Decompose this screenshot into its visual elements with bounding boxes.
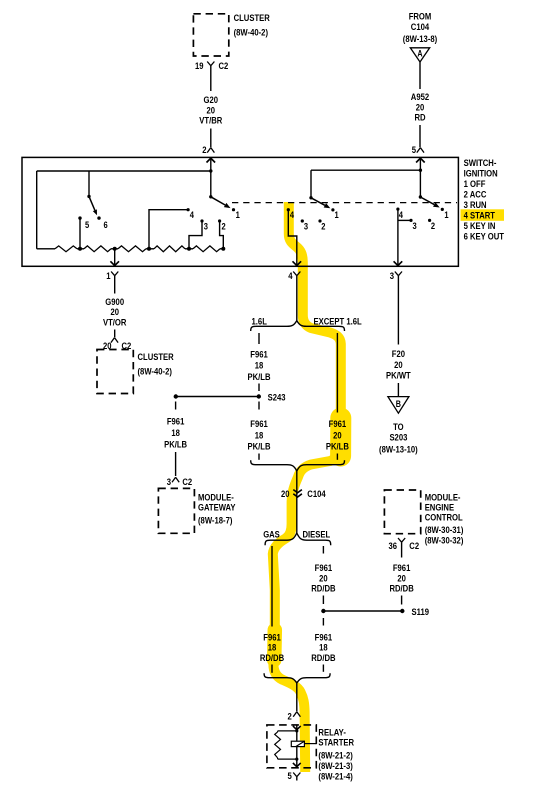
svg-text:(8W-13-8): (8W-13-8): [403, 34, 437, 45]
svg-text:F961: F961: [329, 419, 347, 430]
svg-text:5: 5: [412, 145, 417, 156]
svg-text:18: 18: [171, 428, 180, 439]
svg-text:2: 2: [202, 145, 206, 156]
svg-text:1: 1: [236, 209, 240, 220]
svg-text:1: 1: [106, 271, 111, 282]
svg-text:2: 2: [431, 220, 435, 231]
svg-text:6: 6: [104, 219, 108, 230]
svg-text:PK/LB: PK/LB: [248, 442, 271, 453]
svg-text:3: 3: [204, 220, 208, 231]
svg-text:S243: S243: [268, 393, 286, 404]
svg-text:A: A: [417, 49, 423, 59]
svg-text:F20: F20: [392, 349, 405, 360]
svg-text:DIESEL: DIESEL: [303, 529, 331, 540]
svg-text:5: 5: [288, 771, 293, 782]
svg-text:GAS: GAS: [263, 529, 280, 540]
svg-text:PK/LB: PK/LB: [164, 440, 187, 451]
svg-text:20: 20: [394, 360, 403, 371]
svg-text:F961: F961: [250, 419, 268, 430]
svg-text:GATEWAY: GATEWAY: [198, 502, 236, 513]
svg-text:(8W-30-32): (8W-30-32): [425, 536, 464, 547]
svg-text:S203: S203: [389, 433, 407, 444]
svg-text:(8W-40-2): (8W-40-2): [138, 367, 172, 378]
svg-text:PK/LB: PK/LB: [248, 372, 271, 383]
svg-text:STARTER: STARTER: [318, 738, 354, 749]
svg-text:C104: C104: [307, 489, 326, 500]
svg-text:C2: C2: [219, 61, 229, 72]
svg-text:20: 20: [281, 489, 290, 500]
svg-text:PK/WT: PK/WT: [386, 371, 411, 382]
svg-text:C2: C2: [409, 541, 419, 552]
svg-text:3: 3: [167, 477, 171, 488]
svg-text:20: 20: [333, 430, 342, 441]
svg-text:18: 18: [255, 361, 264, 372]
svg-text:F961: F961: [250, 349, 268, 360]
svg-text:C104: C104: [411, 22, 430, 33]
svg-text:4: 4: [399, 209, 404, 220]
svg-text:(8W-13-10): (8W-13-10): [379, 445, 418, 456]
svg-text:CLUSTER: CLUSTER: [138, 352, 174, 363]
svg-text:S119: S119: [412, 607, 430, 618]
svg-text:(8W-21-2): (8W-21-2): [318, 751, 352, 762]
svg-text:2: 2: [288, 711, 292, 722]
svg-text:CONTROL: CONTROL: [425, 513, 463, 524]
svg-text:CLUSTER: CLUSTER: [234, 13, 270, 24]
svg-text:(8W-21-4): (8W-21-4): [318, 772, 352, 783]
svg-text:IGNITION: IGNITION: [464, 169, 498, 180]
svg-text:1: 1: [335, 209, 339, 220]
svg-text:RD/DB: RD/DB: [311, 653, 335, 664]
svg-text:3: 3: [413, 220, 417, 231]
svg-text:TO: TO: [393, 422, 404, 433]
svg-text:2 ACC: 2 ACC: [464, 190, 487, 201]
svg-text:VT/BR: VT/BR: [199, 116, 222, 127]
svg-text:1 OFF: 1 OFF: [464, 179, 486, 190]
svg-text:RD/DB: RD/DB: [260, 653, 284, 664]
svg-text:3: 3: [390, 271, 394, 282]
svg-text:RD: RD: [414, 113, 425, 124]
svg-text:2: 2: [222, 220, 226, 231]
svg-text:19: 19: [195, 61, 204, 72]
svg-text:3: 3: [304, 220, 308, 231]
svg-text:18: 18: [255, 430, 264, 441]
svg-text:4 START: 4 START: [464, 211, 496, 222]
svg-text:(8W-40-2): (8W-40-2): [234, 28, 268, 39]
svg-text:RD/DB: RD/DB: [389, 584, 413, 595]
svg-text:PK/LB: PK/LB: [326, 442, 349, 453]
svg-text:(8W-18-7): (8W-18-7): [198, 515, 232, 526]
svg-text:5: 5: [85, 219, 89, 230]
svg-text:F961: F961: [167, 417, 185, 428]
svg-text:4: 4: [290, 209, 295, 220]
svg-text:5 KEY IN: 5 KEY IN: [464, 221, 496, 232]
svg-text:3 RUN: 3 RUN: [464, 200, 487, 211]
svg-text:VT/OR: VT/OR: [103, 317, 127, 328]
svg-text:4: 4: [288, 271, 293, 282]
svg-text:36: 36: [389, 541, 398, 552]
svg-text:(8W-21-3): (8W-21-3): [318, 761, 352, 772]
svg-text:2: 2: [321, 220, 325, 231]
svg-text:1: 1: [444, 209, 448, 220]
svg-text:B: B: [396, 399, 402, 409]
svg-text:C2: C2: [182, 477, 192, 488]
svg-text:4: 4: [190, 209, 195, 220]
svg-text:RD/DB: RD/DB: [311, 584, 335, 595]
svg-text:6 KEY OUT: 6 KEY OUT: [464, 232, 505, 243]
svg-text:SWITCH-: SWITCH-: [464, 158, 497, 169]
svg-text:(8W-30-31): (8W-30-31): [425, 525, 464, 536]
